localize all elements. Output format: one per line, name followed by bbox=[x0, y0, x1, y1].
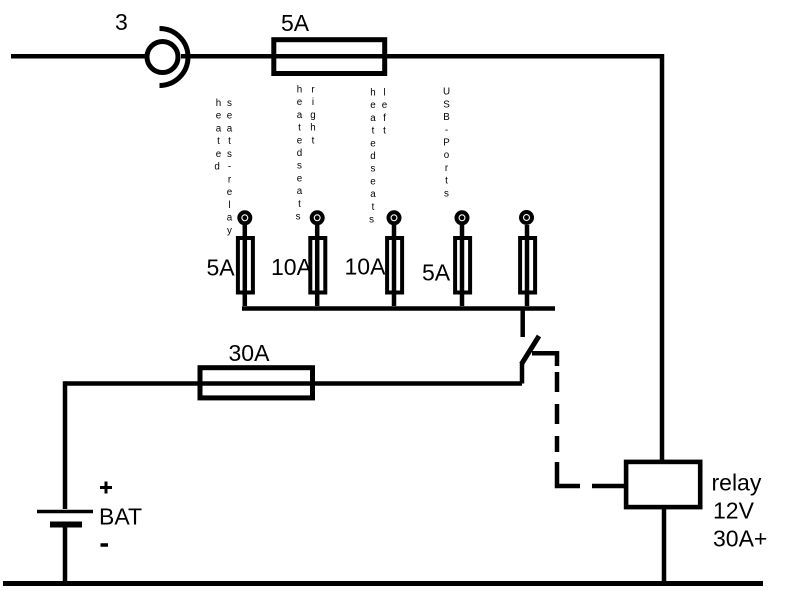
fuse 5A top body bbox=[274, 40, 385, 74]
branch fuse 2: wire bbox=[315, 225, 320, 306]
fuse 30A body bbox=[200, 368, 313, 398]
branch fuse 4: body bbox=[455, 238, 470, 293]
svg-text:BAT: BAT bbox=[99, 504, 142, 530]
branch fuse 5: body bbox=[520, 238, 535, 293]
svg-text:10A: 10A bbox=[345, 254, 387, 280]
connector plug circle bbox=[147, 42, 178, 73]
svg-text:5A: 5A bbox=[422, 260, 451, 286]
switch blade bbox=[522, 336, 540, 364]
branch fuse 5: terminal bbox=[521, 212, 532, 223]
svg-text:30A+: 30A+ bbox=[713, 526, 767, 552]
branch fuse 1: terminal bbox=[239, 212, 250, 223]
wire battery negative to ground bus bbox=[63, 527, 68, 586]
connector socket arc bbox=[160, 29, 189, 86]
switch fixed contact stub bbox=[520, 309, 525, 338]
linkage solid into relay bbox=[592, 484, 624, 489]
battery negative plate bbox=[50, 522, 82, 528]
svg-text:heated seats-relay: heated seats-relay bbox=[214, 98, 232, 237]
branch fuse 1: body bbox=[238, 238, 253, 293]
wire 30A fuse to switch bbox=[65, 381, 522, 386]
svg-text:5A: 5A bbox=[281, 10, 310, 36]
bus wire under fuses bbox=[242, 306, 555, 311]
branch fuse 2: terminal bbox=[312, 212, 323, 223]
svg-text:3: 3 bbox=[115, 9, 128, 35]
battery positive plate bbox=[37, 510, 93, 514]
linkage solid from blade bbox=[532, 353, 557, 366]
branch fuse 5: wire bbox=[525, 225, 530, 306]
label + bbox=[100, 486, 112, 489]
label - bbox=[101, 543, 109, 547]
branch fuse 3: body bbox=[387, 238, 402, 293]
relay coil box bbox=[626, 462, 700, 507]
svg-text:12V: 12V bbox=[713, 497, 755, 523]
wire battery positive riser bbox=[63, 381, 68, 509]
branch fuse 4: terminal bbox=[457, 212, 468, 223]
switch pivot wire bbox=[520, 362, 525, 384]
ground bottom bus bbox=[3, 581, 763, 586]
svg-text:5A: 5A bbox=[207, 255, 236, 281]
branch fuse 3: wire bbox=[392, 225, 397, 306]
linkage dashed corner bbox=[557, 462, 580, 486]
svg-text:USB-Ports: USB-Ports bbox=[443, 87, 450, 200]
svg-text:heatedseats left: heatedseats left bbox=[369, 88, 388, 226]
branch fuse 4: wire bbox=[460, 225, 465, 306]
wire circle to fuse bbox=[181, 54, 271, 59]
wire relay to bottom bus bbox=[662, 509, 667, 586]
branch fuse 2: body bbox=[310, 238, 325, 293]
branch fuse 3: terminal bbox=[389, 212, 400, 223]
svg-text:heatedseats right: heatedseats right bbox=[296, 85, 316, 223]
svg-text:10A: 10A bbox=[271, 254, 313, 280]
wire through top fuse to right corner and down bbox=[271, 56, 662, 462]
linkage dashed vertical bbox=[555, 372, 560, 392]
branch fuse 1: wire bbox=[243, 225, 248, 306]
svg-text:relay: relay bbox=[712, 470, 762, 496]
svg-text:30A: 30A bbox=[229, 340, 271, 366]
wire top-left feed bbox=[11, 54, 147, 59]
